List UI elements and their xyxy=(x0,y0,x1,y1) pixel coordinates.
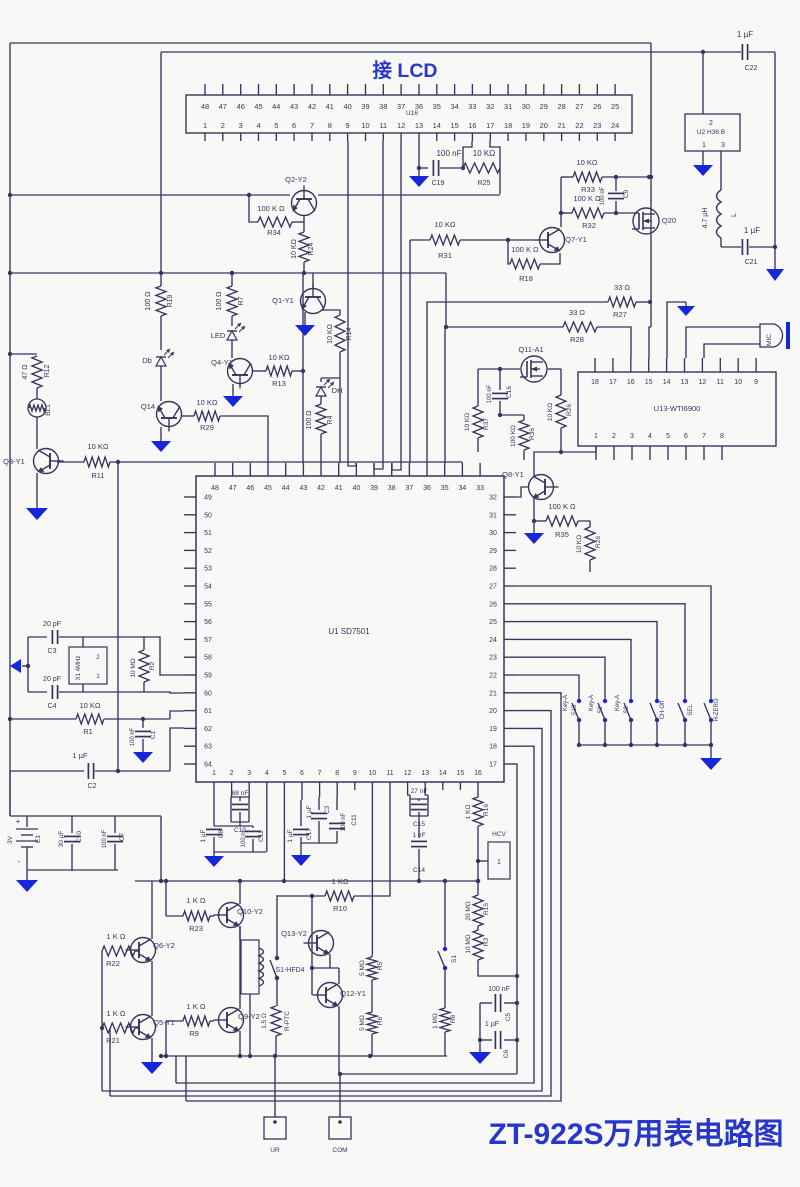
connector U16 body xyxy=(186,95,632,133)
svg-text:41: 41 xyxy=(335,485,343,492)
svg-text:R32: R32 xyxy=(582,221,596,230)
transistor Q12-Y1 xyxy=(310,966,366,1074)
svg-text:Q3-Y1: Q3-Y1 xyxy=(3,457,25,466)
svg-text:6: 6 xyxy=(300,770,304,777)
IC U1 SD7501 xyxy=(196,476,504,782)
svg-text:Q10-Y2: Q10-Y2 xyxy=(237,907,263,916)
ground under C1 xyxy=(133,752,153,763)
capacitor C6 1uF xyxy=(480,1021,519,1058)
svg-text:38: 38 xyxy=(379,102,387,111)
wire relay to bus xyxy=(248,994,252,1058)
svg-text:61: 61 xyxy=(204,708,212,715)
svg-text:C5: C5 xyxy=(505,1012,512,1021)
svg-text:40: 40 xyxy=(343,102,351,111)
svg-text:R31: R31 xyxy=(438,251,452,260)
svg-text:1 µF: 1 µF xyxy=(737,30,753,39)
resistor R6 5M xyxy=(359,980,384,1056)
wire LCD box frame xyxy=(161,52,651,273)
signal arrow left xyxy=(10,637,30,692)
svg-text:S1-HFD4: S1-HFD4 xyxy=(275,967,304,974)
svg-text:28: 28 xyxy=(557,102,565,111)
svg-text:R23: R23 xyxy=(189,924,203,933)
ground under Q14 xyxy=(151,427,171,452)
svg-text:5 MΩ: 5 MΩ xyxy=(359,1015,366,1031)
wire U1 pin18 loop xyxy=(176,746,534,1083)
svg-text:42: 42 xyxy=(317,485,325,492)
svg-text:R18: R18 xyxy=(519,274,533,283)
svg-text:C22: C22 xyxy=(745,65,758,72)
svg-text:14: 14 xyxy=(433,121,441,130)
svg-text:100 nF: 100 nF xyxy=(102,829,108,848)
svg-text:11: 11 xyxy=(379,121,387,130)
resistor R18 100K xyxy=(506,238,560,283)
resistor R-PTC xyxy=(261,978,291,1056)
svg-text:S8: S8 xyxy=(624,706,630,714)
svg-text:6: 6 xyxy=(292,121,296,130)
lamp BL1 xyxy=(28,388,52,417)
capacitor C19 100nF xyxy=(419,149,464,187)
svg-text:10: 10 xyxy=(734,379,742,386)
svg-text:Key-A: Key-A xyxy=(615,695,621,711)
svg-text:R13: R13 xyxy=(272,379,286,388)
svg-text:CH-Off: CH-Off xyxy=(660,700,666,719)
wire bus under LCD xyxy=(8,193,500,197)
svg-text:R7: R7 xyxy=(238,296,245,305)
main title xyxy=(488,1118,783,1151)
svg-text:BL1: BL1 xyxy=(45,404,52,416)
resistor R15 20M xyxy=(465,879,490,926)
svg-text:E1: E1 xyxy=(35,835,42,843)
wire bus mid drop to R28 net xyxy=(445,273,447,327)
diode Db xyxy=(142,349,174,401)
svg-text:C14: C14 xyxy=(413,867,425,874)
diode DH xyxy=(316,378,342,396)
svg-text:20: 20 xyxy=(540,121,548,130)
power arrow down right rail xyxy=(766,269,784,281)
svg-text:1: 1 xyxy=(702,142,706,149)
svg-text:42: 42 xyxy=(308,102,316,111)
svg-text:1 MΩ: 1 MΩ xyxy=(432,1013,439,1029)
svg-text:C8: C8 xyxy=(218,829,225,838)
svg-text:10 MΩ: 10 MΩ xyxy=(130,658,137,677)
svg-text:C21: C21 xyxy=(745,259,758,266)
svg-text:40: 40 xyxy=(353,485,361,492)
svg-text:Db: Db xyxy=(142,356,152,365)
wire U1 pin21 loop xyxy=(186,693,561,1101)
svg-text:R34: R34 xyxy=(267,228,281,237)
svg-text:26: 26 xyxy=(593,102,601,111)
capacitor C16 100nF xyxy=(487,367,520,417)
svg-text:20: 20 xyxy=(489,708,497,715)
svg-text:100 K Ω: 100 K Ω xyxy=(257,204,285,213)
svg-text:10 KΩ: 10 KΩ xyxy=(434,220,455,229)
svg-text:R16: R16 xyxy=(483,804,490,816)
svg-text:15: 15 xyxy=(645,379,653,386)
svg-text:36: 36 xyxy=(423,485,431,492)
resistor R24 10K xyxy=(291,216,315,275)
svg-text:R26: R26 xyxy=(595,536,602,548)
svg-text:R35: R35 xyxy=(555,530,569,539)
capacitor C11 100nF xyxy=(329,790,358,843)
svg-text:R33: R33 xyxy=(581,185,595,194)
svg-text:17: 17 xyxy=(609,379,617,386)
wire U1 pin5 drop xyxy=(283,790,285,881)
svg-text:H-ZERO: H-ZERO xyxy=(714,698,720,721)
capacitor C3b 1uF xyxy=(301,790,337,843)
wire U1 pin23 to switch S9 xyxy=(516,657,605,701)
wire U1 pin26 to switch SEL xyxy=(516,604,685,701)
svg-text:27: 27 xyxy=(489,584,497,591)
resistor R26 10K xyxy=(547,369,573,452)
svg-text:17: 17 xyxy=(489,762,497,769)
resistor R32 100K xyxy=(561,194,604,230)
wire U1 pin24 to switch S8 xyxy=(516,639,631,701)
transistor Q14 xyxy=(141,402,182,432)
transistor Q4-Y1 xyxy=(211,358,252,389)
svg-text:35: 35 xyxy=(433,102,441,111)
svg-text:68 nF: 68 nF xyxy=(232,790,249,797)
svg-text:34: 34 xyxy=(450,102,458,111)
svg-text:R29: R29 xyxy=(200,423,214,432)
svg-text:1 nF: 1 nF xyxy=(412,832,425,839)
svg-text:100 nF: 100 nF xyxy=(241,828,247,847)
resistor R37 10K xyxy=(464,369,500,452)
IC U13-WTI6900 xyxy=(578,372,776,446)
svg-text:R12: R12 xyxy=(44,364,51,377)
wire crystal to U1 pin59 xyxy=(144,637,184,675)
svg-text:1 K Ω: 1 K Ω xyxy=(187,1002,206,1011)
resistor R5 5M xyxy=(359,955,384,980)
svg-text:11: 11 xyxy=(717,379,724,386)
wire U1 pin27 to switch H-ZERO xyxy=(516,586,711,701)
svg-text:100 Ω: 100 Ω xyxy=(145,292,152,311)
svg-text:17: 17 xyxy=(486,121,494,130)
resistor R22 1K xyxy=(102,932,139,968)
svg-text:12: 12 xyxy=(404,770,412,777)
capacitor C8 1uF xyxy=(200,790,225,856)
terminal UR xyxy=(264,1056,286,1154)
svg-text:1 K Ω: 1 K Ω xyxy=(107,932,126,941)
svg-text:R21: R21 xyxy=(106,1036,120,1045)
switch SEL xyxy=(678,699,694,747)
svg-text:Q9-Y2: Q9-Y2 xyxy=(238,1012,260,1021)
svg-text:2: 2 xyxy=(612,433,616,440)
svg-text:-: - xyxy=(18,857,21,866)
svg-text:22: 22 xyxy=(489,673,497,680)
svg-text:100 nF: 100 nF xyxy=(487,384,493,403)
svg-text:R36: R36 xyxy=(529,428,536,440)
svg-text:30: 30 xyxy=(522,102,530,111)
transistor Q9-Y2 xyxy=(214,926,260,1033)
svg-text:C16: C16 xyxy=(506,386,513,398)
svg-text:R24: R24 xyxy=(308,242,315,255)
svg-text:2: 2 xyxy=(221,121,225,130)
svg-text:R-PTC: R-PTC xyxy=(284,1011,291,1031)
svg-text:R3: R3 xyxy=(483,937,490,946)
svg-text:18: 18 xyxy=(591,379,599,386)
wire LCD pin9 to U1 pin40 xyxy=(348,141,356,466)
svg-text:35: 35 xyxy=(441,485,449,492)
wire cap column xyxy=(478,1003,482,1052)
svg-text:1: 1 xyxy=(497,859,501,866)
svg-text:33 Ω: 33 Ω xyxy=(614,283,630,292)
svg-text:47 Ω: 47 Ω xyxy=(22,365,29,380)
svg-text:10 KΩ: 10 KΩ xyxy=(87,442,108,451)
svg-text:31: 31 xyxy=(489,512,497,519)
svg-text:1 µF: 1 µF xyxy=(306,805,313,818)
svg-text:16: 16 xyxy=(468,121,476,130)
resistor R29 10K xyxy=(182,398,268,463)
svg-text:1 µF: 1 µF xyxy=(287,829,294,842)
svg-text:10 KΩ: 10 KΩ xyxy=(473,149,495,158)
svg-text:Key-A: Key-A xyxy=(563,695,569,711)
svg-text:U2 H36 B: U2 H36 B xyxy=(697,129,725,136)
svg-text:C3: C3 xyxy=(324,805,331,814)
svg-text:57: 57 xyxy=(204,637,212,644)
svg-text:100 KΩ: 100 KΩ xyxy=(510,425,517,447)
svg-text:12: 12 xyxy=(699,379,707,386)
svg-text:25: 25 xyxy=(489,619,497,626)
svg-text:19: 19 xyxy=(522,121,530,130)
svg-text:41: 41 xyxy=(326,102,334,111)
svg-text:10 KΩ: 10 KΩ xyxy=(327,324,334,344)
svg-text:10 KΩ: 10 KΩ xyxy=(79,701,100,710)
svg-text:R37: R37 xyxy=(483,418,490,430)
wire COM line xyxy=(338,1072,517,1076)
capacitor C4 20pF xyxy=(28,676,83,710)
svg-text:C2: C2 xyxy=(88,783,97,790)
switch H-ZERO xyxy=(704,698,720,747)
regulator U2 H36B xyxy=(685,52,740,151)
resistor R7 100 xyxy=(216,271,245,326)
ground under E1 xyxy=(16,858,38,892)
svg-text:8: 8 xyxy=(335,770,339,777)
svg-text:接 LCD: 接 LCD xyxy=(373,60,438,82)
svg-text:R5: R5 xyxy=(377,961,384,970)
svg-text:39: 39 xyxy=(370,485,378,492)
svg-text:1: 1 xyxy=(203,121,207,130)
capacitor C15 27nF xyxy=(408,788,428,828)
transistor Q2-Y2 xyxy=(285,175,316,216)
svg-text:COM: COM xyxy=(332,1147,347,1154)
svg-text:100 nF: 100 nF xyxy=(488,986,510,993)
capacitor C5 100nF xyxy=(480,986,519,1021)
svg-text:3V: 3V xyxy=(7,835,14,844)
svg-text:18: 18 xyxy=(489,744,497,751)
transistor Q3-Y1 xyxy=(3,417,63,474)
svg-text:16: 16 xyxy=(474,770,482,777)
crystal X1 xyxy=(69,637,107,692)
svg-text:10 MΩ: 10 MΩ xyxy=(465,934,472,953)
resistor R10 1K xyxy=(277,790,390,913)
IC U13 pins xyxy=(591,358,758,460)
svg-text:64: 64 xyxy=(204,762,212,769)
ground under C8 xyxy=(204,856,224,867)
svg-text:24: 24 xyxy=(489,637,497,644)
svg-text:Q6-Y2: Q6-Y2 xyxy=(153,941,175,950)
wire Q2 column to U1 pin43 xyxy=(301,273,305,463)
svg-text:36: 36 xyxy=(415,102,423,111)
svg-text:R1: R1 xyxy=(83,727,93,736)
switch CH-Off xyxy=(650,699,666,747)
svg-text:100 K Ω: 100 K Ω xyxy=(573,194,601,203)
svg-text:Q14: Q14 xyxy=(141,402,155,411)
svg-text:X1 4MHz: X1 4MHz xyxy=(76,656,82,681)
svg-text:5: 5 xyxy=(274,121,278,130)
svg-text:29: 29 xyxy=(540,102,548,111)
wire U1 pin19 loop xyxy=(102,728,542,1091)
svg-text:20 pF: 20 pF xyxy=(43,621,61,628)
IC U1 pins xyxy=(184,463,516,790)
svg-text:2: 2 xyxy=(230,770,234,777)
wire long bus mid-bottom xyxy=(135,879,480,883)
svg-text:33 Ω: 33 Ω xyxy=(569,308,585,317)
resistor R4 100 xyxy=(306,396,334,463)
svg-text:1 µF: 1 µF xyxy=(200,829,207,842)
resistor R1 10K xyxy=(8,701,184,736)
resistor R21 1K xyxy=(102,1009,139,1045)
inductor L 4.7uH xyxy=(702,151,738,238)
svg-text:Q12-Y1: Q12-Y1 xyxy=(340,989,366,998)
svg-text:4: 4 xyxy=(265,770,269,777)
svg-text:C11: C11 xyxy=(351,814,358,826)
svg-text:50: 50 xyxy=(204,512,212,519)
svg-text:C3: C3 xyxy=(48,648,57,655)
svg-text:LED: LED xyxy=(211,331,226,340)
svg-text:R28: R28 xyxy=(570,335,584,344)
svg-text:4: 4 xyxy=(648,433,652,440)
wire U1 pin20 loop xyxy=(110,711,551,1096)
svg-text:1 K Ω: 1 K Ω xyxy=(187,896,206,905)
capacitor C3 20pF xyxy=(28,621,83,655)
svg-text:HCV: HCV xyxy=(492,831,506,838)
svg-text:45: 45 xyxy=(254,102,262,111)
wire right rail xyxy=(774,52,776,269)
wire R31 to U1 pin37 xyxy=(409,240,411,463)
svg-text:21: 21 xyxy=(489,690,497,697)
svg-text:MIC: MIC xyxy=(766,334,773,346)
svg-text:Q13-Y2: Q13-Y2 xyxy=(281,929,307,938)
svg-text:37: 37 xyxy=(406,485,414,492)
wire R11 to U1 pin34 xyxy=(110,460,462,464)
svg-text:1 µF: 1 µF xyxy=(744,226,760,235)
switch S8 xyxy=(615,695,633,747)
wire bottom bus xyxy=(159,1054,447,1058)
svg-text:49: 49 xyxy=(204,495,212,502)
resistor R3 10M xyxy=(465,926,519,978)
svg-text:100 Ω: 100 Ω xyxy=(216,292,223,311)
svg-text:R2: R2 xyxy=(149,661,156,670)
svg-text:3: 3 xyxy=(630,433,634,440)
resistor R35 100K xyxy=(534,502,590,539)
svg-text:1: 1 xyxy=(594,433,598,440)
svg-text:14: 14 xyxy=(439,770,447,777)
svg-text:C12: C12 xyxy=(258,830,265,842)
svg-text:Key-A: Key-A xyxy=(589,695,595,711)
svg-text:47: 47 xyxy=(219,102,227,111)
svg-text:C19: C19 xyxy=(432,180,445,187)
svg-text:Q2-Y2: Q2-Y2 xyxy=(285,175,307,184)
resistor R16 1K xyxy=(465,790,490,861)
svg-text:8: 8 xyxy=(720,433,724,440)
svg-text:5: 5 xyxy=(666,433,670,440)
svg-text:23: 23 xyxy=(489,655,497,662)
transistor Q13-Y2 xyxy=(281,896,333,968)
resistor R27 33 xyxy=(427,283,652,463)
svg-text:53: 53 xyxy=(204,566,212,573)
wire MIC to U13 pin12 xyxy=(704,344,760,358)
svg-text:S10: S10 xyxy=(572,704,578,715)
svg-text:32: 32 xyxy=(486,102,494,111)
svg-text:U1 SD7501: U1 SD7501 xyxy=(328,627,370,636)
svg-text:3: 3 xyxy=(247,770,251,777)
svg-text:52: 52 xyxy=(204,548,212,555)
wire switch common bus xyxy=(579,744,711,746)
svg-text:Q8-Y1: Q8-Y1 xyxy=(502,470,524,479)
svg-text:S1: S1 xyxy=(451,955,458,963)
svg-text:C7: C7 xyxy=(119,832,126,841)
svg-text:24: 24 xyxy=(611,121,619,130)
svg-text:15: 15 xyxy=(457,770,465,777)
resistor R23 1K xyxy=(164,879,214,933)
svg-text:26: 26 xyxy=(489,601,497,608)
svg-text:47: 47 xyxy=(229,485,237,492)
svg-text:29: 29 xyxy=(489,548,497,555)
resistor R19 100 xyxy=(145,273,174,350)
svg-text:1 K Ω: 1 K Ω xyxy=(107,1009,126,1018)
svg-text:C1: C1 xyxy=(150,730,157,739)
svg-text:34: 34 xyxy=(459,485,467,492)
wire right rail from LCD box xyxy=(649,43,653,327)
svg-text:9: 9 xyxy=(346,121,350,130)
svg-text:59: 59 xyxy=(204,673,212,680)
svg-text:30 µF: 30 µF xyxy=(58,831,65,848)
wire left column xyxy=(100,951,104,1091)
ground under C17 xyxy=(291,855,311,866)
svg-text:1: 1 xyxy=(212,770,216,777)
svg-text:R10: R10 xyxy=(333,904,347,913)
svg-text:7: 7 xyxy=(318,770,322,777)
signal arrow node xyxy=(667,302,695,358)
svg-text:100 nF: 100 nF xyxy=(600,186,606,205)
svg-text:R19: R19 xyxy=(167,294,174,307)
mosfet Q20 xyxy=(604,208,676,234)
svg-text:1 µF: 1 µF xyxy=(72,751,88,760)
resistor R31 10K xyxy=(410,220,535,260)
svg-text:20 MΩ: 20 MΩ xyxy=(465,901,472,920)
svg-text:48: 48 xyxy=(201,102,209,111)
capacitor C10 30uF xyxy=(58,816,83,870)
svg-text:1 KΩ: 1 KΩ xyxy=(332,877,349,886)
svg-text:48: 48 xyxy=(211,485,219,492)
svg-text:7: 7 xyxy=(310,121,314,130)
ground under U2 pin1 xyxy=(693,151,713,176)
svg-text:54: 54 xyxy=(204,584,212,591)
transistor Q8-Y1 xyxy=(502,470,558,500)
svg-text:C4: C4 xyxy=(48,703,57,710)
svg-text:19: 19 xyxy=(489,726,497,733)
svg-text:R9: R9 xyxy=(189,1029,199,1038)
resistor R2 10M xyxy=(83,637,156,692)
resistor R26b 10K xyxy=(576,527,602,572)
svg-text:100 Ω: 100 Ω xyxy=(306,411,313,430)
ground under Q4 xyxy=(223,384,243,407)
capacitor C7 100nF xyxy=(102,816,126,870)
resistor R8 1M xyxy=(432,968,457,1056)
svg-text:37: 37 xyxy=(397,102,405,111)
mosfet Q11-A1 xyxy=(518,345,547,382)
capacitor C14 1nF xyxy=(411,816,427,883)
